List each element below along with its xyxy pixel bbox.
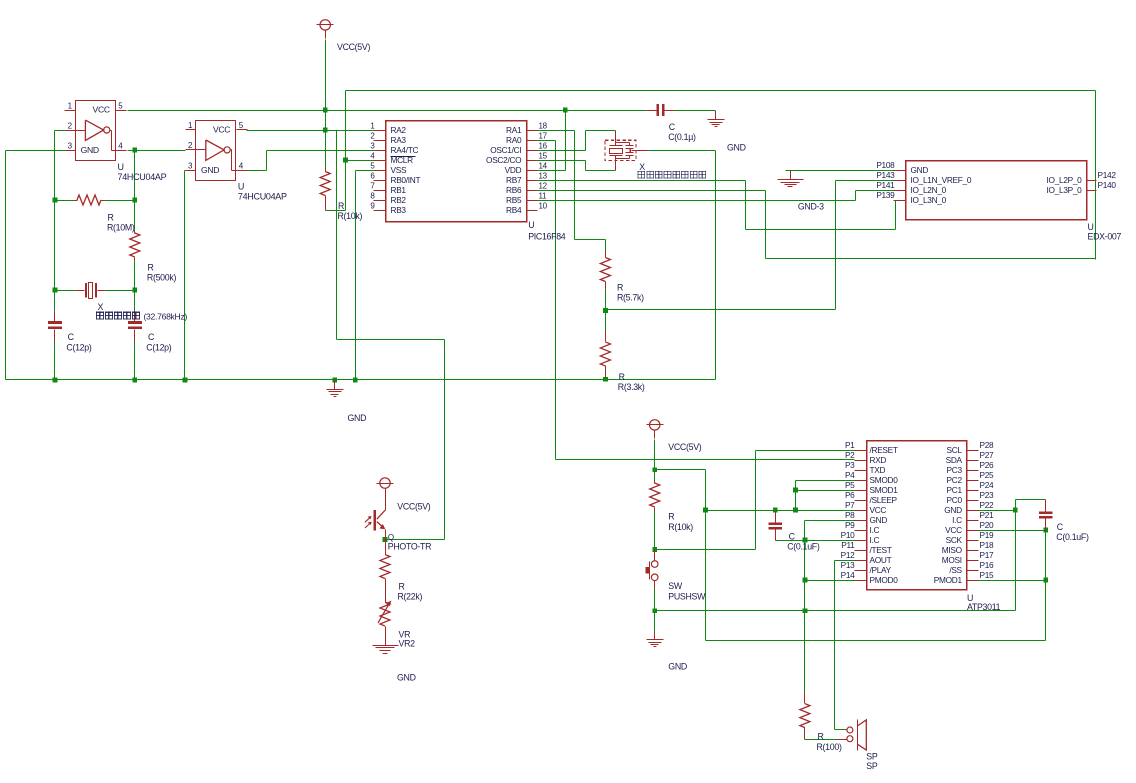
svg-text:RB7: RB7 xyxy=(506,175,522,185)
svg-text:P15: P15 xyxy=(980,570,995,580)
svg-text:R(22k): R(22k) xyxy=(398,592,423,602)
svg-text:C: C xyxy=(68,332,75,342)
svg-text:PC2: PC2 xyxy=(947,475,963,485)
svg-text:P143: P143 xyxy=(876,170,895,180)
svg-text:18: 18 xyxy=(539,121,548,130)
svg-text:P27: P27 xyxy=(980,450,995,460)
svg-text:PMOD1: PMOD1 xyxy=(934,575,963,585)
svg-text:GND-3: GND-3 xyxy=(798,202,824,212)
svg-text:/RESET: /RESET xyxy=(870,445,898,455)
svg-text:17: 17 xyxy=(539,131,548,140)
svg-text:10: 10 xyxy=(539,201,548,210)
svg-text:VSS: VSS xyxy=(391,165,407,175)
svg-text:/SLEEP: /SLEEP xyxy=(870,495,898,505)
svg-text:P14: P14 xyxy=(841,570,856,580)
svg-text:MISO: MISO xyxy=(942,545,963,555)
svg-text:P9: P9 xyxy=(845,520,855,530)
svg-text:12: 12 xyxy=(539,181,548,190)
svg-text:VCC(5V): VCC(5V) xyxy=(337,42,370,52)
svg-text:SMOD1: SMOD1 xyxy=(870,485,899,495)
svg-text:P13: P13 xyxy=(841,560,856,570)
svg-text:RB1: RB1 xyxy=(391,185,407,195)
svg-text:R(10M): R(10M) xyxy=(107,222,135,232)
svg-text:R: R xyxy=(617,283,623,293)
svg-text:I.C: I.C xyxy=(870,535,880,545)
svg-text:P8: P8 xyxy=(845,510,855,520)
svg-text:RA3: RA3 xyxy=(391,135,407,145)
svg-text:VCC: VCC xyxy=(870,505,887,515)
svg-text:IO_L2N_0: IO_L2N_0 xyxy=(911,185,947,195)
svg-text:VCC: VCC xyxy=(213,125,230,135)
svg-text:/TEST: /TEST xyxy=(870,545,892,555)
svg-text:GND: GND xyxy=(870,515,888,525)
svg-text:R(10k): R(10k) xyxy=(338,211,363,221)
svg-text:ATP3011: ATP3011 xyxy=(967,602,1001,612)
svg-text:GND: GND xyxy=(397,673,416,683)
svg-text:C(0.1uF): C(0.1uF) xyxy=(787,542,820,552)
svg-text:P142: P142 xyxy=(1098,170,1117,180)
svg-text:C: C xyxy=(1057,522,1064,532)
svg-text:C: C xyxy=(148,332,155,342)
svg-text:PUSHSW: PUSHSW xyxy=(668,591,706,601)
svg-text:IO_L3P_0: IO_L3P_0 xyxy=(1047,185,1083,195)
svg-text:I.C: I.C xyxy=(870,525,880,535)
svg-text:PC0: PC0 xyxy=(947,495,963,505)
svg-text:IO_L3N_0: IO_L3N_0 xyxy=(911,195,947,205)
svg-text:/SS: /SS xyxy=(949,565,962,575)
svg-text:SP: SP xyxy=(866,752,878,762)
svg-text:RB4: RB4 xyxy=(506,205,522,215)
svg-text:C: C xyxy=(669,122,676,132)
svg-text:IO_L2P_0: IO_L2P_0 xyxy=(1047,175,1083,185)
svg-text:GND: GND xyxy=(81,145,99,155)
svg-text:P23: P23 xyxy=(980,490,995,500)
svg-text:14: 14 xyxy=(539,161,548,170)
svg-text:C: C xyxy=(789,531,796,541)
svg-text:R: R xyxy=(399,582,405,592)
svg-text:VR2: VR2 xyxy=(399,638,416,648)
svg-text:R: R xyxy=(619,372,625,382)
svg-text:EDX-007: EDX-007 xyxy=(1088,231,1122,241)
svg-text:VCC: VCC xyxy=(93,105,110,115)
svg-text:RA0: RA0 xyxy=(506,135,522,145)
svg-text:SMOD0: SMOD0 xyxy=(870,475,899,485)
svg-text:P139: P139 xyxy=(876,190,895,200)
svg-text:13: 13 xyxy=(539,171,548,180)
svg-text:X: X xyxy=(639,162,645,172)
svg-text:P20: P20 xyxy=(980,520,995,530)
svg-text:R(3.3k): R(3.3k) xyxy=(618,382,645,392)
svg-text:/PLAY: /PLAY xyxy=(870,565,892,575)
svg-text:GND: GND xyxy=(944,505,962,515)
svg-text:RA2: RA2 xyxy=(391,125,407,135)
svg-text:RB2: RB2 xyxy=(391,195,407,205)
svg-text:P26: P26 xyxy=(980,460,995,470)
svg-text:P17: P17 xyxy=(980,550,995,560)
svg-text:VCC(5V): VCC(5V) xyxy=(397,501,430,511)
svg-text:(32.768kHz): (32.768kHz) xyxy=(144,311,188,321)
svg-text:P6: P6 xyxy=(845,490,855,500)
svg-text:P108: P108 xyxy=(876,160,895,170)
svg-text:U: U xyxy=(118,162,124,172)
svg-text:MOSI: MOSI xyxy=(942,555,962,565)
svg-text:GND: GND xyxy=(727,142,746,152)
svg-text:P28: P28 xyxy=(980,440,995,450)
svg-text:RA1: RA1 xyxy=(506,125,522,135)
svg-text:TXD: TXD xyxy=(870,465,886,475)
svg-text:R: R xyxy=(148,263,154,273)
svg-text:VCC(5V): VCC(5V) xyxy=(668,442,701,452)
svg-text:C(0.1uF): C(0.1uF) xyxy=(1056,532,1089,542)
svg-text:P4: P4 xyxy=(845,470,855,480)
svg-text:11: 11 xyxy=(539,191,548,200)
svg-text:RA4/TC: RA4/TC xyxy=(391,145,419,155)
svg-text:RB0/INT: RB0/INT xyxy=(391,175,421,185)
svg-text:15: 15 xyxy=(539,151,548,160)
svg-text:SCK: SCK xyxy=(946,535,963,545)
svg-text:P12: P12 xyxy=(841,550,856,560)
svg-text:C(12p): C(12p) xyxy=(146,342,171,352)
svg-text:P141: P141 xyxy=(876,180,895,190)
svg-text:R: R xyxy=(668,511,674,521)
svg-text:AOUT: AOUT xyxy=(870,555,892,565)
svg-text:P18: P18 xyxy=(980,540,995,550)
svg-text:P19: P19 xyxy=(980,530,995,540)
svg-text:74HCU04AP: 74HCU04AP xyxy=(118,172,167,182)
svg-text:P25: P25 xyxy=(980,470,995,480)
svg-text:GND: GND xyxy=(201,165,219,175)
svg-text:PHOTO-TR: PHOTO-TR xyxy=(388,541,431,551)
svg-text:P21: P21 xyxy=(980,510,995,520)
svg-text:U: U xyxy=(528,220,534,230)
svg-text:U: U xyxy=(238,182,244,192)
svg-text:RB5: RB5 xyxy=(506,195,522,205)
svg-text:P2: P2 xyxy=(845,450,855,460)
svg-text:P140: P140 xyxy=(1098,180,1117,190)
svg-text:R(10k): R(10k) xyxy=(668,522,693,532)
svg-text:R(5.7k): R(5.7k) xyxy=(617,292,644,302)
svg-text:VCC: VCC xyxy=(945,525,962,535)
svg-text:OSC2/CO: OSC2/CO xyxy=(486,155,522,165)
svg-text:P24: P24 xyxy=(980,480,995,490)
svg-text:SDA: SDA xyxy=(946,455,963,465)
svg-text:P5: P5 xyxy=(845,480,855,490)
svg-text:I.C: I.C xyxy=(952,515,962,525)
svg-text:P10: P10 xyxy=(841,530,856,540)
svg-text:GND: GND xyxy=(668,662,687,672)
svg-text:PIC16F84: PIC16F84 xyxy=(528,232,566,242)
svg-text:PMOD0: PMOD0 xyxy=(870,575,899,585)
svg-text:R(100): R(100) xyxy=(817,742,842,752)
svg-text:C(12p): C(12p) xyxy=(66,342,91,352)
svg-text:RB3: RB3 xyxy=(391,205,407,215)
svg-text:P22: P22 xyxy=(980,500,995,510)
svg-text:P11: P11 xyxy=(841,540,855,550)
svg-text:SCL: SCL xyxy=(947,445,963,455)
svg-text:RB6: RB6 xyxy=(506,185,522,195)
svg-text:IO_L1N_VREF_0: IO_L1N_VREF_0 xyxy=(911,175,972,185)
svg-text:GND: GND xyxy=(348,413,367,423)
svg-text:VDD: VDD xyxy=(505,165,522,175)
svg-text:P16: P16 xyxy=(980,560,995,570)
svg-text:PC3: PC3 xyxy=(947,465,963,475)
svg-text:GND: GND xyxy=(911,165,929,175)
svg-text:P3: P3 xyxy=(845,460,855,470)
svg-text:P7: P7 xyxy=(845,500,855,510)
svg-text:R: R xyxy=(818,732,824,742)
svg-text:74HCU04AP: 74HCU04AP xyxy=(238,192,287,202)
svg-text:R: R xyxy=(338,201,344,211)
svg-text:OSC1/CI: OSC1/CI xyxy=(490,145,521,155)
svg-text:C(0.1µ): C(0.1µ) xyxy=(668,132,696,142)
svg-text:R: R xyxy=(108,213,114,223)
svg-text:SP: SP xyxy=(866,761,878,771)
svg-text:P1: P1 xyxy=(845,440,855,450)
svg-text:PC1: PC1 xyxy=(947,485,963,495)
svg-text:RXD: RXD xyxy=(870,455,887,465)
svg-text:R(500k): R(500k) xyxy=(147,272,177,282)
svg-text:SW: SW xyxy=(668,581,683,591)
svg-text:X: X xyxy=(98,302,104,312)
svg-text:16: 16 xyxy=(539,141,548,150)
